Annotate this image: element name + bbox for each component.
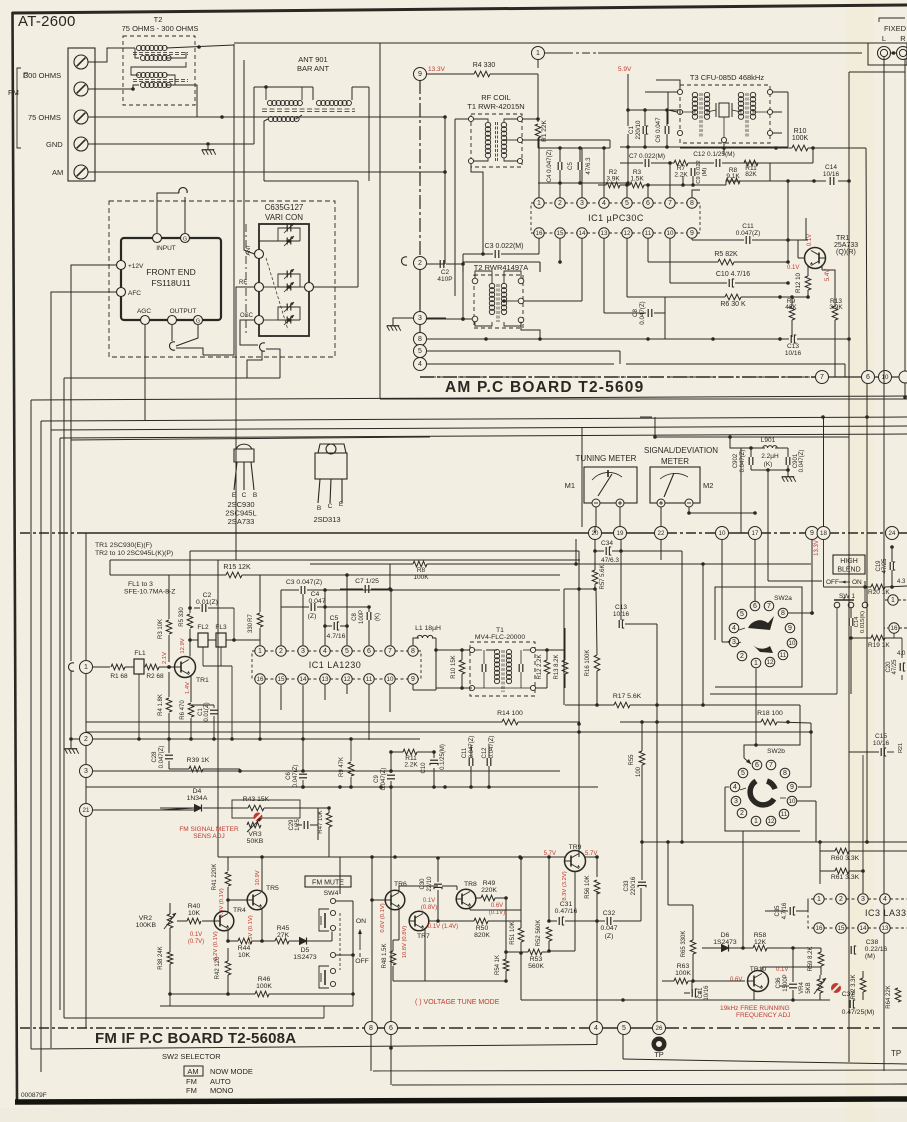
RF coil T1 box [471, 114, 522, 167]
terminal block [68, 48, 95, 181]
node 9 AM [414, 68, 427, 81]
capacitor C35 [775, 902, 795, 919]
capacitor C6 0.047 [655, 117, 669, 143]
red 5.4V TR1 [825, 269, 831, 281]
capacitor C32 fm [600, 910, 617, 940]
svg-text:(0.1V): (0.1V) [489, 910, 505, 916]
svg-text:D5: D5 [301, 947, 310, 954]
svg-text:C902: C902 [733, 453, 739, 468]
wire RF left [236, 287, 255, 560]
wire sw2a left [722, 641, 729, 643]
svg-text:+12V: +12V [128, 263, 144, 270]
red VOLTAGE TUNE MODE [415, 999, 500, 1006]
svg-text:C10: C10 [421, 762, 427, 774]
FIXED jack box [868, 43, 907, 65]
resistor R6 30K [720, 294, 746, 308]
wire rfcoil mid [504, 139, 610, 141]
node 2 fm [80, 733, 93, 746]
svg-text:13: 13 [882, 925, 889, 932]
svg-text:R41 220K: R41 220K [212, 864, 218, 891]
svg-text:0.6V (0.1V): 0.6V (0.1V) [380, 903, 386, 932]
svg-text:(Z): (Z) [605, 933, 614, 940]
LA1230 pin 12 [342, 674, 352, 684]
svg-text:INPUT: INPUT [156, 245, 176, 252]
T1 fm dashed box [470, 642, 535, 696]
node 21 fm [80, 804, 93, 817]
T2 RWR pin br [518, 317, 524, 323]
label TR2 note [95, 550, 173, 557]
pin varicon right [305, 283, 314, 292]
varicon variable cap 3b [278, 315, 300, 325]
svg-text:8: 8 [411, 648, 415, 655]
svg-text:7: 7 [767, 603, 771, 610]
svg-text:B: B [317, 505, 321, 512]
svg-text:IC3 LA335: IC3 LA335 [865, 908, 907, 918]
svg-text:C36: C36 [776, 977, 782, 989]
svg-text:4: 4 [594, 1025, 598, 1032]
red 0.1V TR6b [421, 898, 437, 911]
svg-text:M1: M1 [565, 481, 575, 490]
wire T2 to AM link [166, 45, 234, 49]
transformer T2 RWR41497A box [463, 262, 540, 272]
label 000879F [21, 1092, 47, 1099]
svg-text:15: 15 [278, 676, 285, 683]
ground L901 [782, 473, 796, 482]
svg-text:24: 24 [889, 530, 896, 537]
svg-text:0.22/16: 0.22/16 [865, 946, 888, 953]
varres VR3 [247, 818, 264, 845]
svg-text:C3 0.022(M): C3 0.022(M) [485, 243, 524, 250]
wire R57 [564, 551, 597, 591]
inductor L1 fm [415, 625, 441, 638]
IC1 pin 11 [643, 228, 653, 238]
wire R14 [86, 721, 580, 723]
svg-text:AFC: AFC [128, 290, 141, 297]
HIGH BLEND box [833, 555, 865, 574]
FM MUTE box [305, 876, 351, 887]
wire bottom y1071 [371, 1035, 907, 1072]
svg-text:3: 3 [734, 798, 738, 805]
bar antenna winding R [316, 100, 351, 105]
svg-text:0.01(Z): 0.01(Z) [196, 599, 218, 606]
svg-text:(0.7V): (0.7V) [188, 939, 204, 945]
wire OSC left [240, 320, 258, 345]
svg-text:10: 10 [387, 676, 394, 683]
wire sw2a 8 [788, 611, 814, 615]
wire la pin4 up [323, 588, 327, 645]
capacitor C10 fm [421, 744, 446, 789]
wire IC1 pin3 up [581, 148, 583, 198]
svg-text:10: 10 [882, 374, 889, 381]
resistor R56 10K [585, 875, 600, 898]
bus row 1028 [20, 1027, 907, 1029]
title AT-2600 [18, 13, 76, 30]
label TR1 note [95, 542, 152, 549]
capacitor C37 [842, 991, 875, 1016]
IC3 pin 1 [814, 894, 824, 904]
wire la pin7 up [389, 588, 393, 645]
resistor R64 22K [886, 985, 901, 1008]
wire row 364 [426, 364, 845, 377]
T3 crystal [716, 103, 732, 117]
svg-text:8: 8 [783, 770, 787, 777]
resistor R1 68 [110, 664, 128, 680]
svg-text:R9 47K: R9 47K [339, 757, 345, 777]
svg-text:25A733: 25A733 [834, 242, 858, 249]
LA1230 pin 11 [364, 674, 374, 684]
capacitor C901 [786, 450, 805, 473]
wire T2 br down [521, 323, 542, 341]
svg-text:11: 11 [645, 230, 652, 237]
label AM P.C BOARD [445, 379, 644, 396]
red 0.2V TR4 [213, 931, 219, 960]
switch SW4 unit1 [319, 909, 336, 931]
resistor R38 24K [158, 946, 173, 969]
T3 winding R1 [738, 92, 743, 119]
wire TR1 net [786, 181, 808, 285]
wire R3 [168, 575, 170, 662]
wire varicon osc [264, 319, 279, 321]
svg-text:FM: FM [186, 1086, 197, 1095]
wire C1C6 bot [620, 134, 680, 183]
resistor R11 82K [744, 160, 758, 178]
transistor TR7 [409, 911, 429, 931]
varicon section 1 frame [278, 228, 300, 241]
pin ANT varicon [246, 244, 264, 259]
svg-text:0.1V (1.4V): 0.1V (1.4V) [428, 924, 458, 930]
wire bar ant tr [313, 87, 369, 181]
varres VR2 [136, 913, 176, 929]
label SW4 [324, 890, 339, 897]
svg-text:2: 2 [418, 260, 422, 267]
svg-text:12: 12 [768, 818, 775, 825]
wire 610 col [609, 140, 611, 148]
svg-text:T1 RWR-42015N: T1 RWR-42015N [467, 102, 524, 111]
wire row 732 [86, 731, 811, 733]
label SW1 [839, 593, 855, 600]
bus top from 9 [426, 73, 474, 75]
FM MPX board outline right [849, 72, 905, 1062]
resistor R12 2.2K fm [537, 654, 550, 679]
T2 RWR winding R [501, 283, 506, 314]
svg-text:C8: C8 [352, 613, 358, 621]
label RF COIL [481, 93, 511, 102]
svg-text:TP: TP [891, 1049, 901, 1058]
svg-text:820K: 820K [474, 932, 490, 939]
label IC1 uPC30C [588, 213, 644, 223]
svg-text:OFF: OFF [826, 579, 839, 586]
svg-text:R4 330: R4 330 [473, 62, 496, 69]
wire fm h560 [110, 551, 580, 575]
svg-text:220K: 220K [481, 887, 497, 894]
svg-text:7: 7 [820, 374, 824, 381]
wire 5.9V rail [627, 74, 629, 110]
IC3 pin 2 [836, 894, 846, 904]
wire row181 right [740, 179, 851, 183]
svg-text:SW 1: SW 1 [839, 593, 855, 600]
T3 core R [746, 93, 748, 138]
svg-text:11: 11 [781, 811, 788, 818]
capacitor C30 [420, 876, 442, 892]
label ON [356, 918, 366, 925]
svg-text:R14 100: R14 100 [497, 710, 523, 717]
red 8.3V TR9 [562, 871, 568, 900]
svg-text:TUNING METER: TUNING METER [576, 454, 637, 463]
resistor R52 560K v2 [536, 920, 552, 947]
wire M2 plus down [660, 507, 662, 527]
wire FL1 gnd [137, 674, 141, 741]
svg-text:560K: 560K [528, 963, 544, 970]
svg-text:10K: 10K [238, 952, 251, 959]
svg-text:6: 6 [753, 603, 757, 610]
svg-text:0.47/25(M): 0.47/25(M) [842, 1009, 875, 1016]
svg-text:R45: R45 [277, 925, 290, 932]
svg-text:8.3V (3.2V): 8.3V (3.2V) [562, 871, 568, 900]
capacitor C29 [289, 819, 308, 831]
svg-text:4.3: 4.3 [897, 579, 906, 585]
label TR4 [233, 907, 246, 914]
resistor R4 330 [473, 62, 496, 77]
svg-text:R20 1K: R20 1K [868, 589, 890, 596]
resistor R7 AM [674, 160, 688, 178]
svg-text:6: 6 [866, 374, 870, 381]
inductor L901 [761, 446, 779, 468]
svg-text:14: 14 [579, 230, 586, 237]
svg-text:R46: R46 [258, 976, 271, 983]
node 17 [749, 527, 762, 540]
LA1230 pin 6 [364, 646, 374, 656]
transistor TR10 [748, 971, 769, 992]
svg-text:TR9: TR9 [569, 844, 582, 851]
FM IF inner box [217, 560, 219, 857]
svg-text:9: 9 [810, 530, 814, 537]
label IC3 LA335x [865, 908, 907, 918]
svg-text:AM P.C BOARD T2-5609: AM P.C BOARD T2-5609 [445, 379, 644, 396]
svg-text:R19 1K: R19 1K [868, 642, 890, 649]
label TR9 [569, 844, 582, 851]
svg-text:R12 10: R12 10 [795, 272, 802, 293]
svg-text:FL3: FL3 [215, 624, 227, 631]
IC1 pin 2 [555, 198, 565, 208]
wire rv 582 [581, 427, 583, 527]
IC1 pin 6 [643, 198, 653, 208]
svg-text:FS118U11: FS118U11 [151, 278, 191, 288]
screw terminal 300ohm B [74, 82, 88, 96]
wire L901 gnd [751, 465, 790, 473]
svg-text:47/25: 47/25 [882, 558, 888, 574]
wire row 351 [426, 351, 620, 364]
svg-text:2: 2 [558, 200, 562, 207]
RF coil core [496, 122, 498, 162]
svg-text:10: 10 [667, 230, 674, 237]
label T1 RWR-42015N [467, 102, 524, 111]
connector loop left of 2 [402, 257, 407, 265]
wire la pin5 up [345, 573, 349, 645]
transistor TR1 fm [175, 657, 196, 678]
LA1230 pin 3 [298, 646, 308, 656]
svg-text:C5: C5 [567, 161, 574, 169]
SW2a enclosure [715, 587, 802, 687]
wire fm 564 [310, 563, 560, 565]
svg-text:15: 15 [557, 230, 564, 237]
ground GND terminal [202, 146, 216, 155]
wire R39 [169, 769, 242, 773]
wire in1 [93, 666, 111, 668]
svg-text:C32: C32 [603, 910, 616, 917]
wire 24 down [890, 545, 894, 589]
RF coil pin tr [517, 116, 522, 121]
resistor R10 100K [792, 128, 809, 151]
svg-text:75 OHMS - 300 OHMS: 75 OHMS - 300 OHMS [122, 24, 199, 33]
svg-text:GND: GND [46, 140, 63, 149]
node 1 AM [532, 47, 545, 60]
wire osc loop down [247, 349, 280, 378]
wire R52 v2 [547, 927, 551, 953]
T2 RWR core [497, 284, 499, 322]
svg-text:R42 120: R42 120 [215, 956, 221, 979]
wire 3 row [426, 317, 472, 321]
label 4.x frag [897, 579, 906, 657]
resistor R16 100K [585, 589, 600, 707]
resistor R15 12K [223, 564, 251, 578]
svg-text:13.3V: 13.3V [814, 540, 820, 556]
label GND [46, 140, 63, 149]
svg-text:11: 11 [780, 652, 787, 659]
T2 RWR winding L [489, 283, 494, 314]
svg-text:1: 1 [817, 896, 821, 903]
LA1230 pin 2 [276, 646, 286, 656]
svg-text:C7 1/25: C7 1/25 [355, 578, 379, 585]
svg-text:2: 2 [279, 648, 283, 655]
wire band y378 [64, 378, 324, 1018]
capacitor C41 [692, 985, 710, 1001]
svg-text:2.1V: 2.1V [162, 652, 168, 664]
resistor R6 470 [180, 700, 194, 720]
screw terminal GND [74, 137, 88, 151]
svg-text:R3 10K: R3 10K [158, 619, 164, 639]
red 5.7V a [544, 851, 556, 857]
IC1 pin 1 [534, 198, 544, 208]
label OFF ON [826, 579, 862, 586]
svg-text:C13: C13 [787, 343, 799, 350]
RCA jack R [897, 47, 907, 60]
node 4 bus [590, 1022, 603, 1035]
svg-text:R60 3.3K: R60 3.3K [831, 855, 860, 862]
wire row163 [620, 162, 813, 164]
SW2a rotor [736, 616, 774, 653]
svg-text:C3 0.047(Z): C3 0.047(Z) [286, 579, 322, 586]
svg-text:4: 4 [732, 625, 736, 632]
svg-text:1: 1 [84, 664, 88, 671]
capacitor C12 fm2 [482, 736, 495, 766]
svg-text:100K: 100K [413, 574, 429, 581]
node 19 [614, 527, 627, 540]
resistor R14 100 [497, 710, 523, 725]
LA1230 pin 8 [408, 646, 418, 656]
wire collector riser [188, 551, 192, 657]
wire TR9 net [547, 855, 642, 1022]
bar antenna winding B [268, 116, 299, 121]
svg-text:L: L [882, 34, 886, 43]
capacitor C4 fm [281, 591, 371, 620]
RF coil pin mr [517, 137, 522, 142]
SW2b contacts [730, 760, 797, 826]
resistor R9 43K [785, 298, 797, 320]
svg-text:3: 3 [418, 315, 422, 322]
svg-text:(M): (M) [702, 168, 708, 177]
svg-text:G: G [196, 319, 200, 325]
svg-text:T3 CFU-085D 468kHz: T3 CFU-085D 468kHz [690, 73, 764, 82]
varicon trimmer cap 1a [284, 223, 294, 233]
svg-text:TR1: TR1 [196, 677, 209, 684]
svg-text:14: 14 [860, 925, 867, 932]
svg-text:R13 8.2K: R13 8.2K [554, 654, 560, 679]
LA1230 pin 5 [342, 646, 352, 656]
label FM MONO [186, 1086, 233, 1095]
wire T3 right [773, 92, 788, 147]
wire GND run [88, 142, 254, 146]
resistor R40 10K [187, 903, 201, 924]
screw terminal 75ohm [74, 110, 88, 124]
wire node21 [92, 809, 198, 811]
resistor R13 8.2K fm [554, 654, 568, 679]
IC1 pin 12 [622, 228, 632, 238]
node 20 [589, 527, 602, 540]
label FM IF PC BOARD [95, 1030, 296, 1047]
red 2.1V [162, 652, 168, 664]
wire screwB to T2 [88, 67, 175, 91]
svg-text:C31: C31 [560, 901, 573, 908]
T1 fm wires [475, 650, 531, 688]
svg-text:R: R [900, 34, 906, 43]
red 12.9V [180, 638, 186, 653]
wire L901 left [653, 417, 849, 448]
wire L901 top [741, 446, 788, 533]
svg-text:TR6: TR6 [394, 881, 407, 888]
switch SW1 [710, 587, 868, 694]
svg-text:OSC: OSC [240, 313, 254, 319]
svg-text:C: C [242, 492, 247, 499]
bus row 533 [20, 532, 907, 534]
ground node2 [65, 671, 79, 754]
varicon variable cap 1b [278, 236, 300, 246]
transformer T2 core [133, 53, 188, 55]
wire R55 [641, 722, 643, 790]
svg-text:C635G127: C635G127 [265, 203, 304, 212]
svg-text:330: 330 [248, 622, 254, 633]
pin OSC varicon [240, 313, 264, 325]
svg-text:FM: FM [186, 1077, 197, 1086]
screw terminal AM [74, 165, 88, 179]
connector loop osc [260, 343, 265, 351]
svg-text:5: 5 [740, 611, 744, 618]
svg-text:19kHz FREE RUNNING: 19kHz FREE RUNNING [720, 1005, 790, 1012]
wire T2 mid tap [524, 238, 582, 301]
capacitor C19 [876, 558, 895, 574]
diode D5 [293, 938, 317, 962]
wire IC1 pin6 up [646, 183, 650, 198]
svg-text:4.0: 4.0 [897, 651, 906, 657]
pin RF varicon [239, 280, 264, 292]
red 9.5V TR5 [248, 915, 254, 944]
T3 core L [700, 93, 702, 138]
svg-text:3: 3 [732, 639, 736, 646]
wire 22 down [660, 539, 662, 560]
svg-text:SENS ADJ: SENS ADJ [193, 833, 224, 840]
wire 1 down [537, 74, 539, 122]
label TR7 [417, 933, 430, 940]
svg-text:3: 3 [580, 200, 584, 207]
